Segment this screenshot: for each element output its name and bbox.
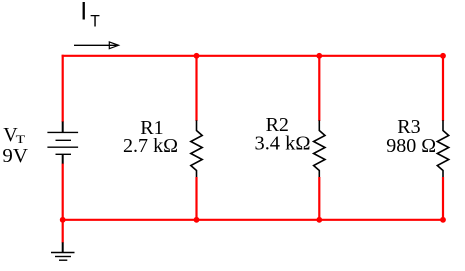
node: junction dot R3 top — [440, 53, 446, 59]
svg-text:T: T — [90, 12, 100, 31]
wire: R3 top lead — [442, 55, 444, 121]
node: junction dot battery/bottom bus — [60, 217, 66, 223]
wire: bottom bus from ground node to R3 — [62, 219, 445, 221]
node: junction dot R2 top — [316, 53, 322, 59]
resistor R2 — [314, 120, 325, 178]
current arrow for I_T — [74, 42, 119, 49]
label V_T — [3, 124, 26, 146]
wire: left vertical from battery to bottom bus and ground — [62, 164, 64, 243]
wire: top bus from battery + to R3 — [62, 55, 445, 57]
svg-text:I: I — [80, 0, 87, 26]
label I_T (total current) — [80, 0, 100, 31]
wire: left vertical from top bus to battery — [62, 55, 64, 122]
wire: R1 bottom lead — [195, 177, 197, 221]
wire: R2 top lead — [318, 55, 320, 121]
node: junction dot R1 top — [194, 53, 200, 59]
svg-text:2.7 kΩ: 2.7 kΩ — [123, 135, 178, 157]
node: junction dot R1 bottom — [194, 217, 200, 223]
wire: R1 top lead — [195, 55, 197, 121]
svg-text:980 Ω: 980 Ω — [386, 135, 436, 157]
svg-text:T: T — [16, 132, 26, 146]
resistor R3 — [437, 120, 448, 178]
svg-text:3.4 kΩ: 3.4 kΩ — [255, 133, 311, 155]
ground — [51, 242, 75, 260]
wire: R3 bottom lead — [442, 177, 444, 221]
svg-text:9V: 9V — [2, 145, 28, 167]
battery V_T 9V — [47, 122, 78, 165]
wire: R2 bottom lead — [318, 177, 320, 221]
node: junction dot R3 bottom — [440, 217, 446, 223]
resistor R1 — [191, 120, 202, 178]
node: junction dot R2 bottom — [316, 217, 322, 223]
